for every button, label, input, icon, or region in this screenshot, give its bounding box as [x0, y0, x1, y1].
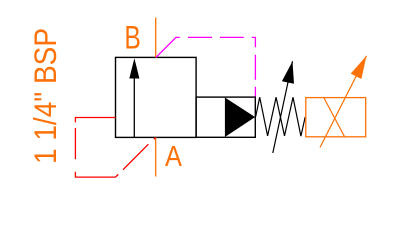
pilot line dash: [188, 36, 212, 38]
spring adjust arrow shaft: [273, 61, 293, 153]
valve main envelope box: [116, 57, 197, 137]
svg-text:1 1/4" BSP: 1 1/4" BSP: [29, 28, 64, 164]
pilot line (magenta dashed) diagonal from B junction: [156, 37, 180, 57]
flow arrow shaft inside envelope: [133, 76, 135, 137]
pilot line dash: [254, 87, 256, 97]
spring adjust arrow head: [282, 61, 294, 84]
drain line dash: [74, 117, 76, 122]
pilot line corner dash: [252, 37, 256, 47]
svg-text:B: B: [124, 20, 140, 56]
port A line: [155, 137, 157, 176]
pilot line dash: [220, 36, 244, 38]
actuator adjust arrow head: [351, 56, 367, 79]
actuator adjust arrow shaft: [320, 56, 367, 148]
drain line diagonal dash: [123, 144, 148, 170]
drain line dash: [74, 128, 76, 159]
svg-text:A: A: [165, 139, 183, 172]
spring: [256, 97, 306, 136]
actuator X cross line: [324, 98, 345, 137]
pilot line dash: [254, 55, 256, 80]
actuator box: [306, 98, 366, 137]
flow arrow head: [129, 58, 139, 78]
drain line end dash at port A: [154, 138, 156, 140]
solid triangle (pilot flow): [225, 98, 255, 138]
drain line corner dash: [75, 172, 115, 177]
drain line solid segment from envelope: [75, 117, 115, 119]
drain line corner stub: [116, 174, 119, 177]
pilot stage box: [196, 97, 255, 137]
port B line: [155, 18, 157, 58]
